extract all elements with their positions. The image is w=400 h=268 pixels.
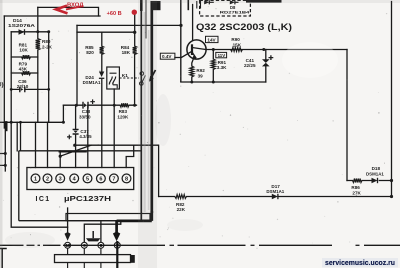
svg-text:IC1: IC1 <box>36 196 51 203</box>
wire K1 box left edge <box>76 25 78 105</box>
thick bus line 1 <box>140 0 143 11</box>
svg-text:R92: R92 <box>196 68 205 73</box>
red annotation arrow VHOD <box>66 6 84 9</box>
svg-text:ВХОД: ВХОД <box>67 3 84 9</box>
resistor R80 <box>36 39 40 51</box>
wire outer loop to connector pin9 <box>11 122 67 227</box>
svg-text:R83: R83 <box>119 109 128 114</box>
svg-text:22K: 22K <box>177 207 186 212</box>
IC pin box <box>27 168 134 190</box>
svg-text:1: 1 <box>34 176 37 182</box>
relay K1 coil box <box>107 67 120 89</box>
thick bus elbow to connector <box>117 211 152 233</box>
svg-text:C37: C37 <box>80 129 89 134</box>
14V box <box>206 36 219 42</box>
svg-text:120K: 120K <box>117 114 129 119</box>
svg-text:11V: 11V <box>218 53 226 58</box>
svg-text:14V: 14V <box>207 38 216 43</box>
label plus C37 <box>67 135 72 140</box>
resistor R81 <box>22 55 31 59</box>
wire R80 rail <box>37 7 39 122</box>
wire pin3 diagonal to R82 feed <box>60 145 91 156</box>
wire C38 R83 branch <box>63 104 136 106</box>
svg-text:3: 3 <box>59 176 62 182</box>
wire C36 branch <box>11 88 49 90</box>
wire C37 pin4 line <box>75 105 77 167</box>
svg-text:10K: 10K <box>19 48 28 53</box>
wire R84 lower <box>134 55 136 106</box>
wire R81 branch <box>11 56 38 58</box>
transistor Q32 <box>187 40 206 59</box>
resistor R84 <box>133 46 137 55</box>
svg-text:3.3K: 3.3K <box>217 65 227 70</box>
label plus C41 <box>269 55 274 60</box>
svg-text:22/10: 22/10 <box>17 84 29 89</box>
svg-text:C38: C38 <box>82 109 91 114</box>
wire rail x48.7 <box>48 32 50 123</box>
wire pin3 line <box>59 151 61 168</box>
svg-text:8: 8 <box>125 176 128 182</box>
wire thin stub x146 <box>145 0 147 38</box>
connector pin numbers <box>65 243 119 249</box>
wire R85 D24 pin6 line <box>77 32 135 167</box>
resistor R85 <box>100 46 104 55</box>
dash-dot bottom rail <box>0 244 400 246</box>
svg-text:2: 2 <box>46 176 49 182</box>
capacitor C37 <box>73 129 79 134</box>
wire D14 branch <box>11 31 49 33</box>
relay K1 dashed link <box>119 77 139 79</box>
connector terminal circles <box>65 242 121 248</box>
resistor R86 <box>353 179 363 183</box>
red node dot +60V <box>132 10 137 15</box>
svg-text:39: 39 <box>198 73 204 78</box>
svg-text:22/25: 22/25 <box>244 63 256 68</box>
wire connector pin10 drop <box>67 208 69 233</box>
svg-text:4.3/35: 4.3/35 <box>79 134 92 139</box>
IC pin circles <box>31 174 131 183</box>
wire circle9 feed <box>84 221 121 243</box>
0.4V box <box>160 53 175 59</box>
11V box <box>216 52 227 57</box>
svg-text:43K: 43K <box>19 67 28 72</box>
svg-text:2-2K: 2-2K <box>42 44 53 49</box>
svg-text:µPC1237H: µPC1237H <box>64 196 111 203</box>
wire R82 D17 rail <box>159 196 392 198</box>
thick bus line 2 <box>150 1 153 213</box>
svg-text:0.4V: 0.4V <box>162 54 172 59</box>
stub x181 <box>180 0 182 82</box>
svg-text:R91: R91 <box>218 60 227 65</box>
wire Q32 collector line <box>206 49 347 51</box>
dashed box D8 <box>200 0 251 16</box>
svg-text:7: 7 <box>112 176 115 182</box>
arrow on bus2 <box>150 70 156 81</box>
IC pin numbers <box>34 176 128 182</box>
wire R91 top <box>212 50 214 83</box>
svg-text:D14: D14 <box>13 18 22 24</box>
svg-text:R86: R86 <box>351 185 360 190</box>
diode D8a <box>204 0 214 4</box>
svg-text:R85: R85 <box>85 45 94 50</box>
wire C38 left drop <box>62 105 64 122</box>
wire C41 branch <box>265 50 267 83</box>
svg-text:15K: 15K <box>233 42 242 47</box>
svg-text:DSM1A1: DSM1A1 <box>366 171 384 176</box>
wire emitter rail <box>181 81 266 83</box>
wire pin8 route <box>126 145 134 167</box>
svg-text:18K: 18K <box>122 50 131 55</box>
svg-text:C41: C41 <box>246 58 255 63</box>
svg-text:Q32 2SC2003 (L,K): Q32 2SC2003 (L,K) <box>196 22 292 32</box>
stub x197 <box>197 1 201 9</box>
svg-text:R84: R84 <box>121 45 130 50</box>
connector tab <box>131 255 135 263</box>
resistor R91 <box>211 59 215 70</box>
wire R79 branch <box>11 72 38 74</box>
wire pin7 K1 line <box>113 89 115 168</box>
wire left exit wires <box>0 122 5 171</box>
wire K1 box top rail C <box>77 24 181 26</box>
wire ladder left rail <box>10 32 12 123</box>
svg-text:1S2076A: 1S2076A <box>8 23 36 29</box>
svg-text:R82: R82 <box>176 202 185 207</box>
wire +60V feed to R84 <box>134 15 136 47</box>
svg-text:R80: R80 <box>42 39 51 44</box>
svg-text:6: 6 <box>99 176 102 182</box>
small box under IC <box>66 214 150 221</box>
wire collector top to D8 <box>192 5 194 41</box>
connector legs <box>68 248 118 268</box>
resistor R79 <box>22 71 31 75</box>
svg-text:820: 820 <box>86 50 94 55</box>
resistor R90 <box>231 48 243 52</box>
IC outer box <box>19 151 142 221</box>
wire right drop x347 <box>346 50 348 181</box>
capacitor C41 <box>262 59 270 66</box>
wire IC box bottom to connector pin8 <box>100 221 102 243</box>
resistor R92 <box>190 66 194 77</box>
wire 0.4V base line <box>175 52 192 58</box>
wire pin2 line <box>47 122 49 167</box>
node +60V rail B <box>4 15 100 17</box>
diode D14 <box>19 29 25 35</box>
svg-text:27K: 27K <box>352 191 361 196</box>
label plus C38 <box>90 99 95 104</box>
thick bus through connector <box>116 241 118 268</box>
wire y145 horizontal <box>75 145 159 196</box>
diode D8b <box>230 0 239 4</box>
filled block top center <box>152 1 161 10</box>
capacitor C36 <box>20 87 25 93</box>
wire pin1 line <box>35 122 37 167</box>
connector body <box>55 255 131 263</box>
resistor R82 <box>175 195 187 199</box>
svg-text:+60 В: +60 В <box>107 11 122 17</box>
svg-text:DSM1A1: DSM1A1 <box>83 80 101 85</box>
svg-text:servicemusic.ucoz.ru: servicemusic.ucoz.ru <box>325 258 395 267</box>
diode D24 <box>99 72 104 79</box>
wire jog y152 <box>59 151 86 153</box>
svg-text:K1: K1 <box>122 73 128 79</box>
wire stubs below bus <box>17 122 20 151</box>
diode D17 <box>272 194 278 199</box>
node bus y122.3 <box>0 121 63 123</box>
watermark <box>322 258 398 267</box>
svg-text:DSM1A1: DSM1A1 <box>266 189 284 194</box>
svg-text:5: 5 <box>86 176 89 182</box>
top bar right of D8 <box>246 0 282 3</box>
svg-text:RD27E1B4: RD27E1B4 <box>220 10 251 15</box>
svg-text:33/50: 33/50 <box>79 114 91 119</box>
arrow onto pin7 thick <box>113 232 120 242</box>
svg-text:10: 10 <box>65 243 70 249</box>
wire left section edge <box>3 16 5 128</box>
stub x188 <box>187 0 189 10</box>
wire pin5 line <box>87 105 89 167</box>
wire D18 R86 branch <box>347 180 392 182</box>
wire bottom left fragment <box>0 249 6 268</box>
arrow onto pin10 <box>65 232 71 241</box>
resistor R83 <box>120 103 129 107</box>
capacitor C38 <box>83 102 88 109</box>
relay contact circles on bus <box>140 72 146 86</box>
wire right drop x390 <box>391 2 393 197</box>
wire top feed A from R80 rail <box>38 7 99 16</box>
diode D18 <box>372 178 378 183</box>
wire R92 emitter <box>192 59 194 83</box>
ground symbol <box>86 231 100 241</box>
